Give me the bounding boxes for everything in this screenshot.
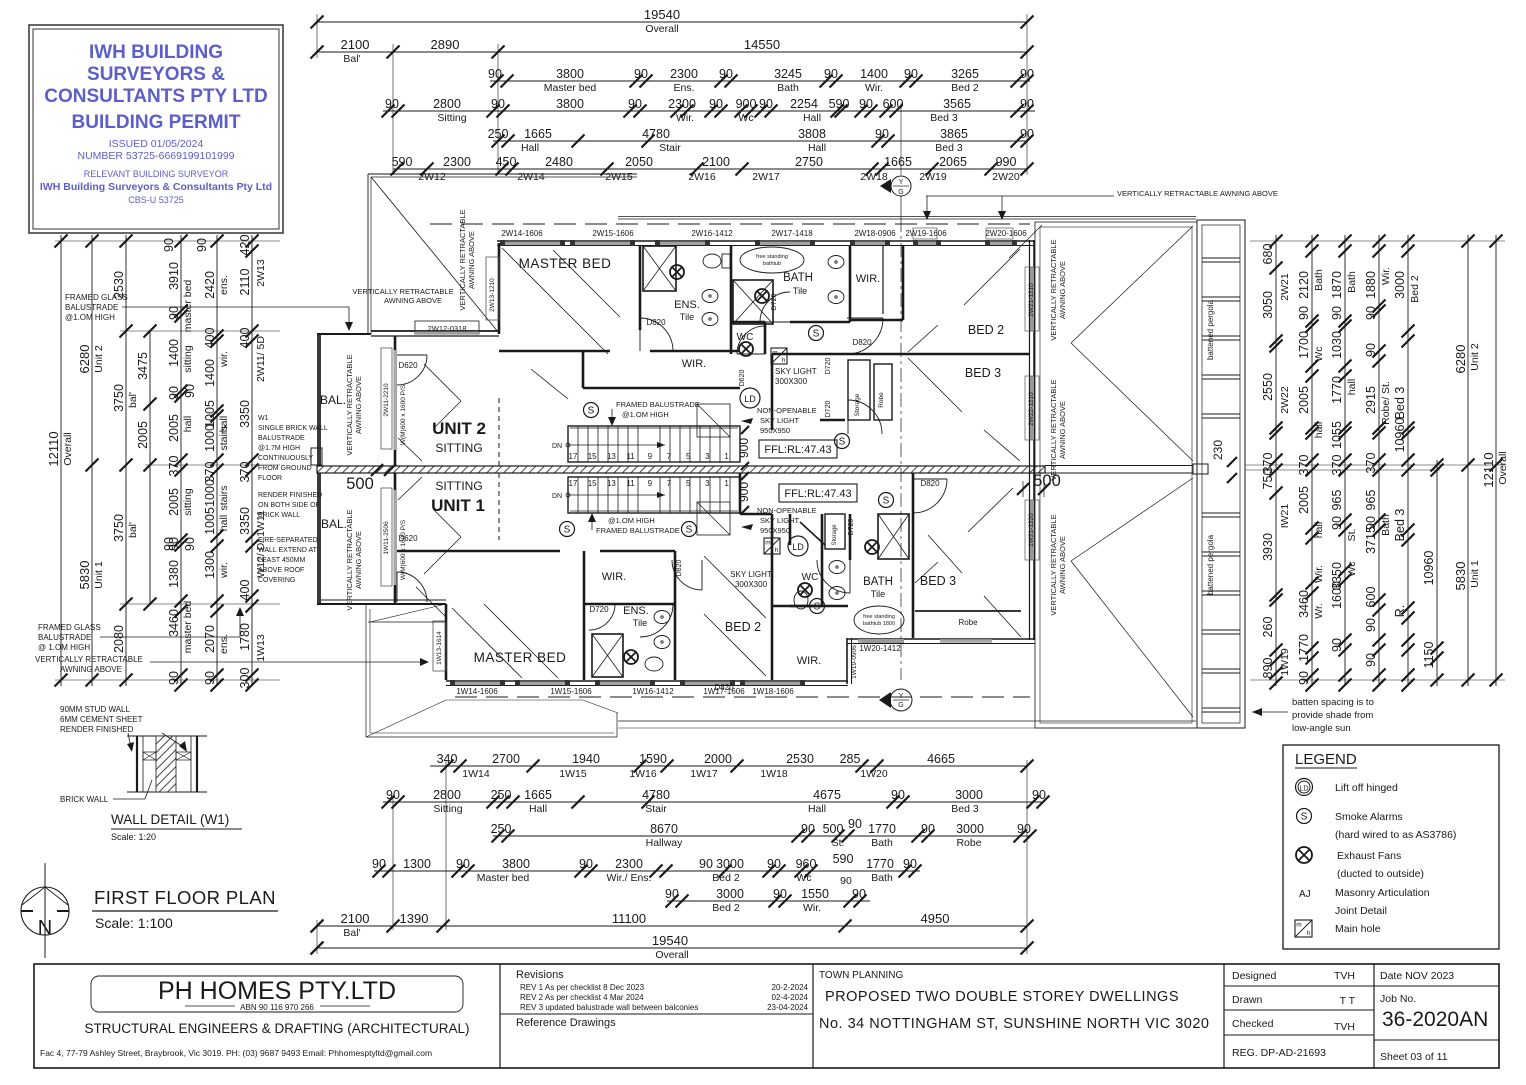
svg-text:3565: 3565	[943, 97, 971, 111]
svg-text:1300: 1300	[203, 551, 217, 579]
svg-text:3050: 3050	[1261, 291, 1275, 319]
witness lines top block	[316, 14, 318, 58]
svg-text:90: 90	[203, 671, 217, 685]
svg-text:wir.: wir.	[218, 562, 230, 579]
svg-text:90: 90	[709, 97, 723, 111]
svg-text:1W21-1220: 1W21-1220	[1028, 513, 1035, 547]
svg-text:2050: 2050	[625, 155, 653, 169]
svg-text:2254: 2254	[790, 97, 818, 111]
svg-text:3750: 3750	[112, 514, 126, 542]
svg-text:LEGEND: LEGEND	[1295, 751, 1357, 768]
corner miter top right	[1009, 225, 1042, 258]
svg-text:stairs: stairs	[218, 485, 230, 510]
svg-text:hall: hall	[1313, 522, 1325, 538]
svg-text:No. 34 NOTTINGHAM ST, SUNSHINE: No. 34 NOTTINGHAM ST, SUNSHINE NORTH VIC…	[819, 1016, 1209, 1032]
svg-text:MASTER BED: MASTER BED	[519, 256, 612, 271]
svg-text:D820: D820	[714, 683, 734, 692]
svg-text:2W14-1606: 2W14-1606	[501, 229, 543, 238]
unit1 bed3 diagonals	[968, 488, 1013, 532]
awning dashed below bottom wall	[455, 696, 1030, 698]
stud wall leader arrows	[128, 733, 131, 748]
svg-text:BATH: BATH	[783, 272, 813, 284]
svg-text:3460: 3460	[1297, 590, 1311, 618]
svg-text:1550: 1550	[801, 887, 829, 901]
svg-text:MASTER BED: MASTER BED	[474, 650, 567, 665]
svg-text:REG. DP-AD-21693: REG. DP-AD-21693	[1232, 1047, 1326, 1059]
svg-text:Bath: Bath	[1313, 269, 1325, 291]
svg-text:90: 90	[1330, 638, 1344, 652]
svg-text:Bed 2: Bed 2	[951, 82, 979, 94]
svg-text:500: 500	[346, 475, 374, 493]
svg-text:7: 7	[667, 479, 672, 488]
svg-text:370: 370	[167, 456, 181, 477]
svg-text:2W13-1210: 2W13-1210	[489, 278, 496, 312]
svg-text:6280: 6280	[1453, 345, 1468, 374]
svg-text:wir.: wir.	[218, 351, 230, 368]
svg-text:3808: 3808	[798, 127, 826, 141]
unit1 sitting left wall	[394, 473, 397, 604]
svg-text:5830: 5830	[1453, 562, 1468, 591]
svg-text:FRAMED BALUSTRADE: FRAMED BALUSTRADE	[616, 400, 700, 409]
svg-text:Robe/ St.: Robe/ St.	[1380, 381, 1392, 425]
svg-text:17: 17	[569, 479, 578, 488]
svg-text:2005: 2005	[167, 414, 181, 442]
svg-text:Revisions: Revisions	[516, 969, 564, 981]
svg-text:6MM CEMENT SHEET: 6MM CEMENT SHEET	[60, 715, 143, 724]
svg-text:Scale: 1:20: Scale: 1:20	[111, 832, 156, 842]
svg-text:2005: 2005	[136, 421, 150, 449]
svg-text:Wir.: Wir.	[1313, 565, 1325, 583]
svg-text:LD: LD	[1300, 786, 1309, 793]
svg-text:Bal': Bal'	[343, 927, 360, 939]
ticks near bottom right of title	[311, 920, 323, 932]
svg-text:Tile: Tile	[793, 286, 807, 296]
svg-text:bathtub 1800: bathtub 1800	[863, 621, 895, 627]
svg-text:230: 230	[1211, 440, 1225, 460]
svg-text:2W17-1418: 2W17-1418	[771, 229, 813, 238]
svg-text:Bath: Bath	[1346, 271, 1358, 293]
svg-text:90: 90	[1032, 788, 1046, 802]
dimension line	[374, 870, 920, 872]
svg-text:VERTICALLY RETRACTABLE: VERTICALLY RETRACTABLE	[352, 287, 453, 296]
svg-text:90: 90	[167, 671, 181, 685]
svg-text:master bed: master bed	[182, 601, 194, 654]
svg-text:2065: 2065	[939, 155, 967, 169]
svg-text:Hall: Hall	[521, 142, 539, 154]
svg-text:@1.OM HIGH: @1.OM HIGH	[65, 313, 115, 322]
unit1 master bed left wall	[445, 604, 448, 680]
svg-text:12110: 12110	[46, 431, 61, 466]
svg-text:S: S	[686, 525, 693, 536]
svg-text:2W20: 2W20	[992, 171, 1020, 183]
svg-text:IW21: IW21	[1279, 504, 1291, 529]
svg-text:3865: 3865	[940, 127, 968, 141]
svg-text:Wc: Wc	[738, 112, 753, 124]
awning outline left of plan	[367, 174, 369, 334]
wc shower unit2	[733, 280, 773, 324]
lower balcony eave step	[368, 621, 446, 623]
svg-text:90: 90	[1330, 306, 1344, 320]
svg-text:3000: 3000	[956, 822, 984, 836]
svg-text:BATH: BATH	[863, 576, 893, 588]
svg-text:WIR.: WIR.	[602, 571, 626, 583]
svg-text:R.: R.	[1393, 605, 1407, 618]
svg-text:D620: D620	[398, 534, 418, 543]
svg-text:Wc: Wc	[1313, 346, 1325, 361]
svg-text:90: 90	[903, 857, 917, 871]
svg-text:Wir.: Wir.	[676, 112, 694, 124]
svg-text:12110: 12110	[1481, 452, 1496, 487]
svg-text:Bath: Bath	[1380, 514, 1392, 536]
svg-text:Wir./ Ens.: Wir./ Ens.	[607, 872, 652, 884]
svg-text:02-4-2024: 02-4-2024	[772, 993, 809, 1002]
svg-text:90: 90	[1297, 306, 1311, 320]
svg-text:W(M)600 x 1600 P/S: W(M)600 x 1600 P/S	[400, 519, 407, 580]
svg-text:SKY LIGHT: SKY LIGHT	[730, 570, 772, 579]
svg-text:2W11-2210: 2W11-2210	[383, 383, 390, 417]
svg-text:Reference Drawings: Reference Drawings	[516, 1017, 616, 1029]
svg-text:Bed 3: Bed 3	[951, 803, 979, 815]
svg-text:1940: 1940	[572, 752, 600, 766]
svg-text:2110: 2110	[238, 269, 252, 296]
vertical dimension line	[91, 235, 93, 686]
svg-text:Hall: Hall	[529, 803, 547, 815]
vertical dimension line	[1407, 235, 1409, 686]
svg-text:7: 7	[667, 452, 672, 461]
dashed boxes 2W19 2W20 labels	[913, 228, 937, 239]
master bed left wall	[498, 243, 501, 334]
bedroom diagonal bed3 unit2	[908, 358, 962, 412]
svg-text:battened pergola: battened pergola	[1206, 299, 1215, 360]
svg-text:VERTICALLY RETRACTABLE: VERTICALLY RETRACTABLE	[35, 655, 143, 664]
svg-text:D720: D720	[825, 358, 832, 375]
svg-text:Unit 1: Unit 1	[93, 561, 105, 589]
svg-text:4950: 4950	[921, 911, 950, 926]
svg-text:S: S	[588, 406, 595, 417]
doors	[640, 318, 673, 351]
svg-text:AWNING ABOVE: AWNING ABOVE	[354, 376, 363, 434]
vertical dimension line	[1275, 235, 1277, 686]
svg-text:1150: 1150	[1422, 642, 1436, 669]
svg-text:Hallway: Hallway	[646, 837, 684, 849]
svg-text:NON-OPENABLE: NON-OPENABLE	[757, 506, 817, 515]
svg-text:stairs: stairs	[218, 425, 230, 450]
svg-text:Unit 2: Unit 2	[93, 345, 105, 373]
svg-text:3930: 3930	[1261, 533, 1275, 561]
svg-text:FIRE-SEPARATED: FIRE-SEPARATED	[258, 537, 318, 544]
S circles and LD circles	[584, 403, 599, 418]
svg-text:2W19-1606: 2W19-1606	[905, 229, 947, 238]
svg-text:hall: hall	[218, 515, 230, 531]
vertical dimension line	[1378, 235, 1380, 686]
vertical dimension line	[1467, 235, 1469, 686]
svg-text:W1: W1	[258, 415, 269, 422]
vertical dimension line	[149, 331, 151, 604]
svg-text:T T: T T	[1340, 995, 1356, 1007]
svg-text:400: 400	[238, 328, 252, 349]
skylight dashed boxes	[697, 404, 730, 437]
svg-text:20-2-2024: 20-2-2024	[772, 983, 809, 992]
ph homes	[91, 976, 463, 1012]
svg-text:VERTICALLY RETRACTABLE: VERTICALLY RETRACTABLE	[458, 209, 467, 310]
svg-text:ens.: ens.	[218, 275, 230, 295]
dimension line	[317, 925, 1027, 927]
svg-text:1W17: 1W17	[690, 768, 718, 780]
svg-text:3265: 3265	[951, 67, 979, 81]
svg-text:9: 9	[648, 452, 653, 461]
svg-text:10960: 10960	[1393, 418, 1407, 453]
svg-text:400: 400	[203, 328, 217, 349]
svg-text:Overall: Overall	[1497, 451, 1509, 484]
unit1 wc fixtures	[798, 583, 812, 597]
svg-text:90: 90	[579, 857, 593, 871]
svg-text:D620: D620	[739, 370, 746, 387]
svg-text:1665: 1665	[524, 127, 552, 141]
svg-text:750: 750	[1261, 469, 1275, 490]
vertical dimension line	[1495, 235, 1497, 686]
window 1W13-1614 dashed box	[433, 621, 446, 671]
svg-text:6280: 6280	[77, 345, 92, 374]
svg-text:SITTING: SITTING	[435, 441, 482, 455]
svg-text:19540: 19540	[644, 7, 680, 22]
svg-text:Unit 1: Unit 1	[1469, 560, 1481, 588]
svg-text:90MM STUD WALL: 90MM STUD WALL	[60, 705, 130, 714]
svg-text:8670: 8670	[650, 822, 678, 836]
svg-text:BALUSTRADE: BALUSTRADE	[65, 303, 118, 312]
svg-text:2800: 2800	[433, 97, 461, 111]
svg-text:FFL:RL:47.43: FFL:RL:47.43	[784, 488, 851, 500]
unit1 bed2 diagonals	[704, 556, 766, 618]
svg-text:provide shade from: provide shade from	[1292, 710, 1373, 721]
window 2W12-0318 dashed box	[415, 321, 479, 334]
svg-text:2W11/ 5D: 2W11/ 5D	[255, 336, 267, 382]
svg-text:23-04-2024: 23-04-2024	[767, 1003, 808, 1012]
witness lines left block	[55, 240, 280, 242]
svg-text:Wir.: Wir.	[1380, 267, 1392, 285]
svg-text:2W16: 2W16	[688, 171, 716, 183]
svg-text:FLOOR: FLOOR	[258, 475, 282, 482]
svg-text:285: 285	[840, 752, 861, 766]
svg-text:Bed 2: Bed 2	[712, 872, 740, 884]
svg-text:Y: Y	[899, 179, 904, 186]
unit1 bottom wall	[446, 680, 848, 682]
svg-text:11: 11	[626, 452, 635, 461]
svg-text:590: 590	[392, 155, 413, 169]
svg-text:17: 17	[569, 452, 578, 461]
svg-text:D720: D720	[589, 605, 609, 614]
svg-text:340: 340	[437, 752, 458, 766]
svg-text:2750: 2750	[795, 155, 823, 169]
svg-text:Fac 4, 77-79 Ashley Street, Br: Fac 4, 77-79 Ashley Street, Braybrook, V…	[40, 1048, 432, 1058]
svg-text:90: 90	[759, 97, 773, 111]
svg-text:WALL DETAIL (W1): WALL DETAIL (W1)	[111, 812, 229, 827]
svg-text:1770: 1770	[866, 857, 894, 871]
svg-text:FFL:RL:47.43: FFL:RL:47.43	[764, 444, 831, 456]
svg-text:960: 960	[796, 857, 817, 871]
svg-text:2W13: 2W13	[255, 259, 267, 287]
svg-text:Overall: Overall	[655, 949, 688, 961]
svg-text:BED 3: BED 3	[965, 366, 1001, 380]
svg-text:bal': bal'	[127, 392, 139, 408]
svg-text:AWNING ABOVE: AWNING ABOVE	[384, 296, 442, 305]
svg-text:990: 990	[996, 155, 1017, 169]
svg-text:590: 590	[829, 97, 850, 111]
svg-text:2W21: 2W21	[1279, 273, 1291, 301]
svg-text:bathtub: bathtub	[763, 261, 781, 267]
svg-text:REV 3 updated balustrade wal: REV 3 updated balustrade wall between ba…	[520, 1003, 698, 1012]
svg-text:90: 90	[488, 67, 502, 81]
svg-text:S: S	[883, 496, 890, 507]
svg-text:ABN 90 116 970 266: ABN 90 116 970 266	[240, 1003, 314, 1012]
balcony unit2+unit1 outer walls	[317, 334, 321, 604]
svg-text:bal': bal'	[127, 522, 139, 538]
dimension line	[493, 140, 1027, 142]
svg-text:90: 90	[1364, 343, 1378, 357]
svg-text:90: 90	[719, 67, 733, 81]
svg-text:1W20-1412: 1W20-1412	[859, 644, 901, 653]
svg-text:15: 15	[588, 479, 597, 488]
svg-text:90: 90	[904, 67, 918, 81]
svg-text:AJ: AJ	[1299, 889, 1311, 900]
svg-text:Wir.: Wir.	[803, 902, 821, 914]
svg-text:RENDER FINISHED: RENDER FINISHED	[60, 725, 134, 734]
FFL boxes	[759, 440, 837, 458]
svg-text:WIR.: WIR.	[797, 655, 821, 667]
svg-text:Wr.: Wr.	[1313, 603, 1325, 619]
svg-text:1W19: 1W19	[1279, 648, 1291, 676]
svg-text:SKY LIGHT: SKY LIGHT	[760, 416, 799, 425]
svg-text:ON BOTH SIDE OF: ON BOTH SIDE OF	[258, 502, 320, 509]
unit2 sitting left wall	[394, 336, 397, 466]
svg-text:S: S	[839, 437, 846, 448]
svg-text:2W21-1210: 2W21-1210	[1028, 283, 1035, 317]
svg-text:90: 90	[183, 384, 197, 398]
svg-text:950X950: 950X950	[760, 426, 790, 435]
dashed partitions	[498, 473, 500, 540]
svg-text:2W15-1606: 2W15-1606	[592, 229, 634, 238]
svg-text:1870: 1870	[1330, 271, 1344, 299]
svg-text:370: 370	[238, 462, 252, 483]
svg-text:Masonry Articulation: Masonry Articulation	[1335, 887, 1430, 899]
building outer walls - unit 2 top wall	[497, 240, 1035, 242]
svg-text:IWH BUILDING: IWH BUILDING	[89, 42, 223, 63]
svg-text:@ 1.OM HIGH: @ 1.OM HIGH	[38, 643, 90, 652]
svg-text:1665: 1665	[524, 788, 552, 802]
svg-text:90: 90	[1297, 671, 1311, 685]
svg-text:AWNING ABOVE: AWNING ABOVE	[467, 231, 476, 289]
svg-text:1W13: 1W13	[255, 634, 267, 662]
window fills bottom wall	[455, 682, 500, 685]
bedroom ceiling diagonals unit2 master bed	[502, 248, 608, 354]
svg-text:3350: 3350	[238, 400, 252, 428]
svg-text:h: h	[782, 357, 786, 364]
svg-text:SURVEYORS &: SURVEYORS &	[87, 64, 225, 85]
svg-text:14550: 14550	[744, 37, 780, 52]
svg-text:RELEVANT BUILDING SURVEYOR: RELEVANT BUILDING SURVEYOR	[84, 169, 229, 179]
unit1 right-bottom walls	[846, 638, 848, 684]
svg-text:D720: D720	[848, 519, 855, 536]
svg-text:3715: 3715	[1364, 526, 1378, 554]
unit2 interior walls	[639, 246, 642, 330]
svg-text:890: 890	[1261, 658, 1275, 679]
svg-text:90: 90	[1330, 516, 1344, 530]
dimension line	[667, 900, 870, 902]
svg-text:FROM GROUND: FROM GROUND	[258, 465, 312, 472]
svg-text:3800: 3800	[556, 67, 584, 81]
right wall window marks	[1030, 267, 1034, 331]
svg-text:90: 90	[167, 386, 181, 400]
legend box	[1283, 745, 1499, 949]
svg-text:hall: hall	[182, 416, 194, 432]
svg-text:BED 3: BED 3	[920, 574, 956, 588]
svg-text:(hard wired to as AS3786): (hard wired to as AS3786)	[1335, 829, 1456, 841]
svg-text:Checked: Checked	[1232, 1018, 1274, 1030]
svg-text:1W15: 1W15	[559, 768, 587, 780]
svg-text:Drawn: Drawn	[1232, 994, 1263, 1006]
svg-text:Bed 3: Bed 3	[1393, 509, 1407, 542]
svg-text:2550: 2550	[1261, 373, 1275, 401]
svg-text:NUMBER 53725-6669199101999: NUMBER 53725-6669199101999	[77, 150, 234, 162]
svg-text:VERTICALLY RETRACTABLE: VERTICALLY RETRACTABLE	[1049, 514, 1058, 615]
svg-text:SKY LIGHT: SKY LIGHT	[760, 516, 799, 525]
svg-text:Wc: Wc	[796, 872, 811, 884]
svg-text:REV 1 As per checklist 8 Dec: REV 1 As per checklist 8 Dec 2023	[520, 983, 645, 992]
pergola battens right	[1197, 220, 1245, 728]
svg-text:D820: D820	[852, 338, 872, 347]
svg-text:90: 90	[372, 857, 386, 871]
svg-text:1W15-1606: 1W15-1606	[550, 687, 592, 696]
svg-text:ABOVE ROOF: ABOVE ROOF	[258, 567, 304, 574]
dimension line	[490, 80, 1030, 82]
svg-text:hall: hall	[1313, 422, 1325, 438]
svg-text:2120: 2120	[1297, 271, 1311, 299]
bath fixtures unit2	[740, 247, 804, 273]
svg-text:@1.OM HIGH: @1.OM HIGH	[608, 516, 655, 525]
svg-text:1770: 1770	[1297, 634, 1311, 662]
building permit stamp box	[29, 25, 283, 233]
vertical dimension line	[1436, 460, 1438, 686]
svg-text:1000: 1000	[203, 479, 217, 507]
svg-text:3000: 3000	[716, 857, 744, 871]
svg-text:260: 260	[1261, 617, 1275, 638]
svg-text:2W19: 2W19	[919, 171, 947, 183]
svg-text:BED 2: BED 2	[968, 323, 1004, 337]
title block	[34, 964, 1499, 1068]
svg-text:COVERING: COVERING	[258, 577, 295, 584]
unit1 ens fixtures	[592, 634, 623, 677]
svg-text:1: 1	[724, 452, 729, 461]
svg-text:CONSULTANTS PTY LTD: CONSULTANTS PTY LTD	[44, 86, 267, 107]
svg-text:AWNING ABOVE: AWNING ABOVE	[60, 665, 122, 674]
svg-text:420: 420	[238, 235, 252, 256]
svg-text:13: 13	[607, 452, 616, 461]
svg-text:3: 3	[705, 452, 710, 461]
svg-text:2100: 2100	[341, 37, 370, 52]
svg-text:free standing: free standing	[863, 614, 895, 620]
svg-text:2100: 2100	[341, 911, 370, 926]
vertical dimension line	[216, 235, 218, 686]
svg-text:CONTINUOUSLY: CONTINUOUSLY	[258, 455, 313, 462]
svg-text:9: 9	[648, 479, 653, 488]
svg-text:free standing: free standing	[756, 254, 788, 260]
svg-text:950X950: 950X950	[760, 526, 790, 535]
svg-text:1400: 1400	[203, 359, 217, 387]
svg-text:900: 900	[737, 438, 751, 458]
svg-text:WIR.: WIR.	[856, 273, 880, 285]
svg-text:2070: 2070	[203, 625, 217, 653]
svg-text:1W18-1606: 1W18-1606	[752, 687, 794, 696]
svg-text:1300: 1300	[403, 857, 431, 871]
